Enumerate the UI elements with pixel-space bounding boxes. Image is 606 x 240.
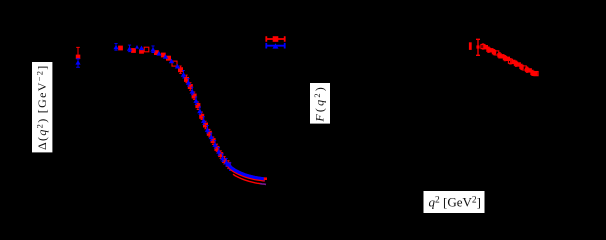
svg-text:F(q2): F(q2) [312, 85, 326, 123]
